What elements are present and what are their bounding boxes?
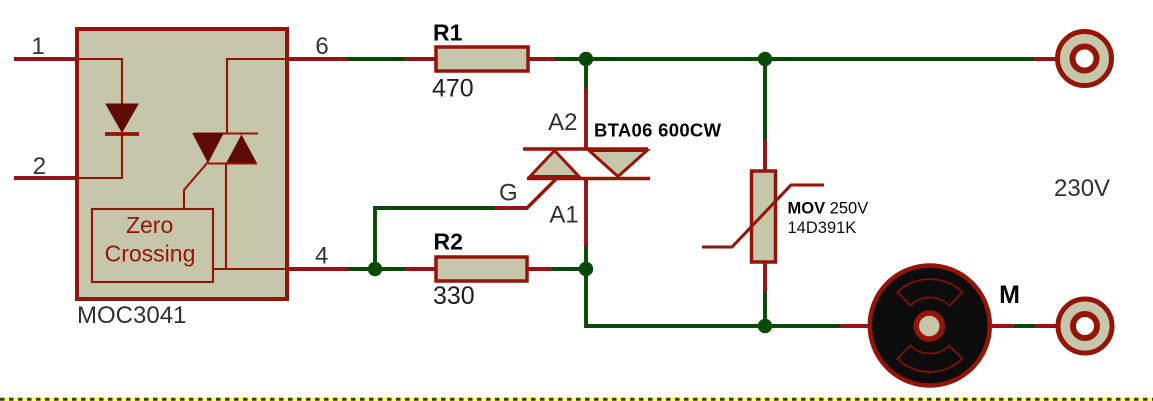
triac right triangle — [589, 151, 647, 177]
triac left triangle — [530, 151, 579, 177]
resistor R1 body — [436, 47, 528, 71]
terminal T2 inner ring — [1073, 314, 1097, 338]
internal triac right triangle — [227, 136, 257, 164]
svg-text:M: M — [999, 281, 1020, 309]
pin 1 stub — [14, 57, 78, 61]
junction dot MOV bottom — [758, 319, 772, 333]
wire: gate net — [375, 208, 497, 269]
svg-text:14D391K: 14D391K — [788, 219, 857, 237]
resistor R2 body — [436, 257, 527, 281]
motor bottom arc — [897, 346, 962, 372]
terminal T1 inner ring — [1073, 47, 1097, 71]
pin 4 stub — [287, 267, 348, 271]
gate diagonal — [526, 178, 557, 209]
junction dot MOV top — [758, 52, 772, 66]
gate pin — [495, 206, 528, 210]
wire: top net (pin6 to R1 to terminal) — [347, 57, 1036, 61]
internal triac bottom line — [208, 162, 257, 164]
wire: motor right green — [1012, 324, 1037, 328]
motor top arc — [897, 279, 962, 305]
internal triac left triangle — [193, 134, 223, 163]
internal pin 4 line — [213, 268, 287, 270]
motor right pin — [988, 324, 1014, 328]
resistor R1 left pin — [405, 57, 437, 61]
terminal T2 outer ring — [1058, 299, 1112, 353]
resistor R2 right pin — [525, 267, 552, 271]
svg-text:A2: A2 — [548, 109, 577, 136]
pin 2 stub — [14, 176, 78, 180]
junction dot A2/R1 — [579, 52, 593, 66]
svg-text:Crossing: Crossing — [105, 241, 196, 267]
internal triac top line — [194, 132, 258, 134]
motor body circle — [870, 266, 990, 386]
motor hub — [916, 313, 942, 339]
resistor R1 right pin — [526, 57, 555, 61]
A2 pin vertical — [584, 88, 588, 150]
internal wire LED to pin 2 — [78, 134, 122, 178]
svg-text:MOV 250V: MOV 250V — [788, 200, 869, 218]
MOV body — [752, 171, 776, 262]
svg-text:6: 6 — [315, 33, 328, 60]
svg-text:1: 1 — [31, 33, 44, 60]
internal wire triac to pin 4 — [225, 164, 227, 270]
svg-text:A1: A1 — [549, 202, 578, 229]
pin 6 stub — [287, 57, 348, 61]
terminal T1 pin — [1034, 57, 1056, 61]
svg-text:470: 470 — [432, 75, 474, 103]
MOV top pin — [763, 140, 767, 173]
terminal T1 outer ring — [1058, 32, 1112, 86]
LED anode triangle — [106, 104, 138, 132]
svg-text:R2: R2 — [434, 228, 463, 254]
A1 pin vertical — [584, 178, 588, 246]
wire: A2 vertical green — [584, 59, 588, 92]
svg-text:BTA06 600CW: BTA06 600CW — [594, 120, 722, 141]
internal wire pin 6 to triac — [227, 59, 287, 133]
zero crossing block — [92, 209, 213, 282]
internal gate polyline to zero crossing — [184, 162, 208, 209]
internal wire from pin 1 to LED — [78, 59, 122, 104]
wire: MOV bottom vertical green — [763, 290, 767, 326]
svg-text:230V: 230V — [1054, 175, 1110, 202]
wire: R2 right to junction — [549, 267, 586, 271]
MOV bottom pin — [763, 260, 767, 292]
svg-text:330: 330 — [433, 282, 475, 310]
junction dot gate/R2 — [368, 262, 382, 276]
svg-text:G: G — [499, 179, 518, 206]
LED cathode bar — [105, 132, 139, 136]
svg-text:2: 2 — [33, 153, 46, 180]
terminal T2 pin — [1035, 324, 1057, 328]
wire: A1/R2 vertical then bottom net horizontal — [586, 244, 842, 326]
sheet border dashed strip — [0, 398, 1153, 401]
resistor R2 left pin — [405, 267, 435, 271]
optocoupler U1 MOC3041 body — [77, 29, 287, 299]
junction dot A1/R2 — [579, 262, 593, 276]
triac bottom bar — [527, 177, 650, 181]
triac top bar — [523, 147, 648, 151]
wire: MOV top vertical green — [763, 59, 767, 142]
MOV diagonal stroke — [702, 185, 824, 247]
svg-text:MOC3041: MOC3041 — [77, 302, 186, 329]
svg-text:4: 4 — [315, 243, 328, 270]
wire: pin4 net horizontal — [347, 267, 407, 271]
svg-text:Zero: Zero — [126, 212, 173, 238]
svg-text:R1: R1 — [433, 20, 463, 46]
motor left pin — [840, 324, 872, 328]
